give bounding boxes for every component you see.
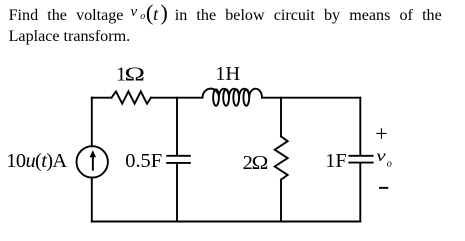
current source arrow shaft: [92, 156, 94, 171]
svg-text:o: o: [387, 159, 392, 170]
capacitor C1 0.5F top plate: [166, 155, 191, 157]
svg-text:v: v: [376, 147, 386, 165]
capacitor C2 1F bottom plate: [348, 162, 373, 164]
wire: 0.5F branch lower: [176, 164, 178, 222]
wire: bottom horizontal: [92, 221, 361, 223]
wire: top-left horizontal segment: [92, 97, 112, 99]
label minus sign: [379, 187, 388, 189]
wire: left vertical upper: [91, 98, 93, 147]
svg-text:10u(t)A: 10u(t)A: [6, 150, 67, 172]
inductor L1 1H: hump arcs: [202, 89, 262, 98]
inductor L1 loop ellipse 2: [223, 89, 229, 105]
wire: left vertical lower: [91, 178, 93, 222]
capacitor C1 0.5F bottom plate: [166, 162, 191, 164]
svg-text:0.5F: 0.5F: [125, 150, 162, 172]
wire: 2ohm branch lower: [280, 180, 282, 222]
wire: inductor to top-right corner: [262, 97, 360, 99]
svg-text:1H: 1H: [215, 63, 240, 85]
svg-text:Ω: Ω: [252, 151, 269, 174]
inductor L1 loop ellipse 4: [243, 89, 249, 105]
wire: right vertical upper: [359, 98, 361, 155]
capacitor C2 1F top plate: [348, 155, 373, 157]
resistor R2 2ohm (vertical zigzag): [275, 136, 288, 179]
current source arrow head: [90, 150, 96, 157]
svg-text:Ω: Ω: [124, 63, 144, 86]
resistor R1 1ohm (horizontal zigzag): [112, 91, 152, 103]
wire: resistor to inductor: [151, 97, 203, 99]
wire: 2ohm branch upper: [280, 98, 282, 137]
current source I1 circle: [77, 146, 108, 177]
inductor L1 loop ellipse 1: [213, 89, 219, 105]
inductor L1 loop ellipse 3: [233, 89, 239, 105]
svg-text:+: +: [375, 121, 387, 146]
wire: right vertical lower: [359, 164, 361, 222]
wire: 0.5F branch upper: [176, 98, 178, 155]
svg-text:1F: 1F: [325, 150, 347, 172]
